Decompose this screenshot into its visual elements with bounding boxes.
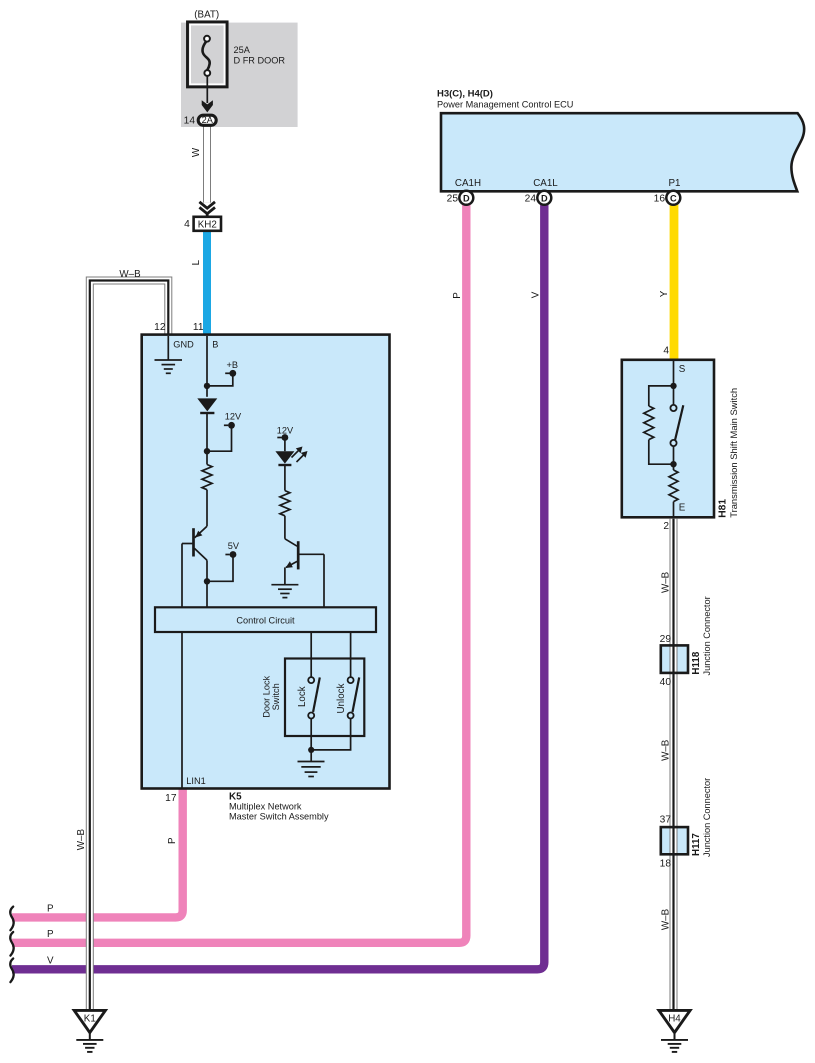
terminal +B xyxy=(225,372,229,374)
wire continuation squiggle P rail 1 xyxy=(10,907,13,931)
svg-text:W–B: W–B xyxy=(119,269,141,280)
K5 internal: wire B main line xyxy=(206,336,208,397)
svg-text:P: P xyxy=(47,929,54,940)
transistor Q1 xyxy=(182,526,207,560)
svg-text:25: 25 xyxy=(447,194,459,205)
svg-text:B: B xyxy=(212,339,218,349)
H81 internal: wire from S xyxy=(673,361,675,405)
svg-text:H118: H118 xyxy=(691,651,702,674)
svg-text:37: 37 xyxy=(660,815,672,826)
svg-text:P1: P1 xyxy=(669,178,681,189)
node junction switch common xyxy=(308,747,314,753)
wire continuation squiggle P rail 2 xyxy=(10,932,13,956)
wire resistor to Q2 xyxy=(284,516,286,539)
svg-text:5V: 5V xyxy=(228,541,240,551)
svg-text:GND: GND xyxy=(173,339,194,349)
wire Q2 emitter to ground xyxy=(284,567,286,584)
H81 switch blade xyxy=(675,405,683,440)
svg-text:LIN1: LIN1 xyxy=(186,776,205,786)
svg-text:Y: Y xyxy=(659,290,670,297)
svg-text:+B: +B xyxy=(227,360,239,370)
svg-text:Multiplex Network: Multiplex Network xyxy=(229,802,302,812)
ground H4 bars xyxy=(661,1040,688,1052)
node junction resistor rejoin xyxy=(670,461,676,467)
svg-text:16: 16 xyxy=(654,194,666,205)
svg-text:2A: 2A xyxy=(202,115,214,125)
svg-text:4: 4 xyxy=(184,219,190,230)
wire unlock to ground junction xyxy=(311,718,350,750)
ground H4 triangle xyxy=(659,1010,690,1032)
transistor Q2 xyxy=(285,539,324,570)
wire W (white) from 2A to KH2 xyxy=(203,126,211,203)
LED emission arrows xyxy=(292,447,308,463)
node junction B/+B xyxy=(204,383,210,389)
svg-text:K1: K1 xyxy=(84,1013,96,1024)
svg-text:L: L xyxy=(191,259,202,265)
wire P (pink) from K5 LIN1 pin 17 to bottom rail xyxy=(12,789,183,918)
svg-text:KH2: KH2 xyxy=(198,219,217,230)
wire P (pink) from ECU CA1H to bottom rail xyxy=(12,204,466,943)
svg-text:Switch: Switch xyxy=(271,683,281,710)
svg-text:2: 2 xyxy=(663,521,669,532)
inline connector double chevron xyxy=(199,202,215,217)
wire L (blue) from KH2 to K5 pin 11 xyxy=(203,231,211,337)
terminal 12V xyxy=(224,424,228,426)
unlock switch contacts xyxy=(348,677,354,683)
svg-text:29: 29 xyxy=(660,634,672,645)
H81 resistor branch xyxy=(649,386,674,406)
svg-text:Junction Connector: Junction Connector xyxy=(702,778,712,857)
fuse box outline xyxy=(188,22,228,87)
connector circle C (pin 16 P1) xyxy=(666,191,680,205)
svg-text:D: D xyxy=(541,193,548,203)
svg-text:V: V xyxy=(47,956,54,967)
svg-text:Power Management Control ECU: Power Management Control ECU xyxy=(437,100,573,110)
K5 internal: ground symbol under GND pin 12 xyxy=(155,336,183,373)
ground K1 bars xyxy=(76,1040,103,1052)
wire continuation squiggle V rail xyxy=(10,959,13,983)
svg-text:CA1H: CA1H xyxy=(455,178,481,189)
svg-text:V: V xyxy=(531,291,542,298)
control circuit box xyxy=(155,607,376,632)
svg-text:H4: H4 xyxy=(668,1013,681,1024)
K5 box (Multiplex Network Master Switch Assembly) xyxy=(142,335,390,789)
wire Y (yellow) from ECU P1 to H81 pin 4 xyxy=(670,204,679,362)
fuse element 25A D FR DOOR xyxy=(202,41,209,71)
connector circle D (pin 24 CA1L) xyxy=(537,191,551,205)
H117 junction connector border xyxy=(661,827,688,854)
svg-text:CA1L: CA1L xyxy=(533,178,558,189)
H81 switch contacts xyxy=(670,405,676,411)
svg-text:W–B: W–B xyxy=(660,571,671,593)
H118 junction connector border xyxy=(661,645,688,673)
svg-text:Control Circuit: Control Circuit xyxy=(236,615,295,625)
lock switch contacts xyxy=(308,677,314,683)
wire control circuit to LIN1 xyxy=(181,632,183,789)
resistor R1 xyxy=(202,465,212,490)
connector 2A (pin 14) xyxy=(198,115,216,125)
node junction S/resistor xyxy=(670,383,676,389)
svg-text:12V: 12V xyxy=(277,425,294,435)
svg-text:H117: H117 xyxy=(691,833,702,856)
svg-text:40: 40 xyxy=(660,677,672,688)
wire control circuit to lock switch xyxy=(310,632,312,677)
svg-text:W–B: W–B xyxy=(660,739,671,761)
svg-text:18: 18 xyxy=(660,859,672,870)
wire switch to resistor xyxy=(673,446,675,470)
svg-text:24: 24 xyxy=(525,194,537,205)
svg-text:11: 11 xyxy=(193,322,204,333)
svg-text:14: 14 xyxy=(184,116,196,127)
battery source gray block xyxy=(181,23,298,127)
wire Q1 emitter down to control circuit xyxy=(206,560,208,607)
connector circle D (pin 25 CA1H) xyxy=(459,191,473,205)
wire fuse to 2A connector xyxy=(206,76,208,103)
ECU box H3/H4 (Power Management Control ECU) xyxy=(441,113,804,191)
wire W-B from H81 pin2 to H4 ground xyxy=(670,519,678,1011)
connector KH2 (pin 4) xyxy=(194,217,221,231)
wire LED to resistor xyxy=(284,465,286,491)
svg-text:P: P xyxy=(452,292,463,299)
resistor R2 xyxy=(280,491,290,516)
svg-text:Transmission Shift Main Switch: Transmission Shift Main Switch xyxy=(728,388,739,518)
node junction 5V xyxy=(204,578,210,584)
wire lock to ground junction xyxy=(310,718,312,761)
wire W-B from K5 pin12 GND to K1 ground xyxy=(90,281,169,1011)
svg-text:S: S xyxy=(679,364,686,375)
svg-text:Master Switch Assembly: Master Switch Assembly xyxy=(229,812,329,822)
svg-text:4: 4 xyxy=(663,346,669,357)
ground symbol under Q2 xyxy=(271,585,298,598)
svg-text:H81: H81 xyxy=(717,499,728,518)
svg-text:D: D xyxy=(463,193,470,203)
ground K1 triangle xyxy=(74,1010,105,1032)
svg-text:25A: 25A xyxy=(234,45,251,55)
ground symbol under door lock switch xyxy=(298,762,325,777)
node junction 12V xyxy=(204,448,210,454)
unlock switch blade xyxy=(353,677,360,712)
H117 junction connector box fill xyxy=(661,827,688,854)
wire V (violet) from ECU CA1L to bottom rail xyxy=(12,204,544,970)
svg-text:H3(C), H4(D): H3(C), H4(D) xyxy=(437,89,493,100)
door lock switch box xyxy=(285,659,364,737)
terminal 5V xyxy=(225,554,229,556)
svg-text:D FR DOOR: D FR DOOR xyxy=(234,55,286,65)
wire control circuit to unlock switch xyxy=(350,632,352,677)
wire diode to resistor xyxy=(206,413,208,465)
resistor to E xyxy=(669,470,678,502)
arrowhead into 2A xyxy=(202,100,213,112)
svg-text:P: P xyxy=(47,904,54,915)
svg-text:W–B: W–B xyxy=(76,829,87,851)
svg-text:Lock: Lock xyxy=(297,686,308,707)
diode D1 xyxy=(197,398,217,411)
svg-text:(BAT): (BAT) xyxy=(194,10,219,21)
H118 junction connector box fill xyxy=(661,645,688,673)
svg-text:C: C xyxy=(670,193,677,203)
svg-text:Junction Connector: Junction Connector xyxy=(702,596,712,675)
svg-text:12V: 12V xyxy=(225,411,242,421)
svg-text:E: E xyxy=(679,503,686,514)
svg-text:P: P xyxy=(167,837,178,844)
terminal 12V (LED branch) xyxy=(277,437,281,439)
wire Q1 base to control circuit xyxy=(181,544,183,608)
lock switch blade xyxy=(313,677,320,712)
svg-text:17: 17 xyxy=(165,793,177,804)
H81 box (Transmission Shift Main Switch) xyxy=(622,360,714,518)
resistor in H81 xyxy=(644,406,654,440)
LED diode xyxy=(275,451,294,463)
wire Q2 base to control circuit xyxy=(323,554,325,607)
svg-text:Door Lock: Door Lock xyxy=(262,675,272,717)
svg-text:W: W xyxy=(191,147,202,157)
wire resistor to Q1 xyxy=(206,490,208,527)
svg-text:Unlock: Unlock xyxy=(336,683,347,713)
svg-text:W–B: W–B xyxy=(660,908,671,930)
svg-text:12: 12 xyxy=(154,322,166,333)
